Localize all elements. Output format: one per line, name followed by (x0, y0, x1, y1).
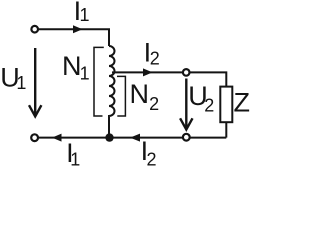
svg-text:N: N (130, 79, 150, 109)
svg-text:2: 2 (150, 48, 160, 68)
svg-text:1: 1 (80, 5, 90, 25)
svg-text:2: 2 (204, 95, 214, 115)
svg-text:N: N (62, 51, 82, 81)
svg-text:2: 2 (147, 149, 157, 166)
svg-text:1: 1 (70, 150, 80, 166)
svg-text:2: 2 (149, 94, 159, 114)
svg-text:1: 1 (80, 64, 90, 84)
svg-text:1: 1 (16, 73, 26, 93)
svg-text:Z: Z (234, 87, 251, 117)
